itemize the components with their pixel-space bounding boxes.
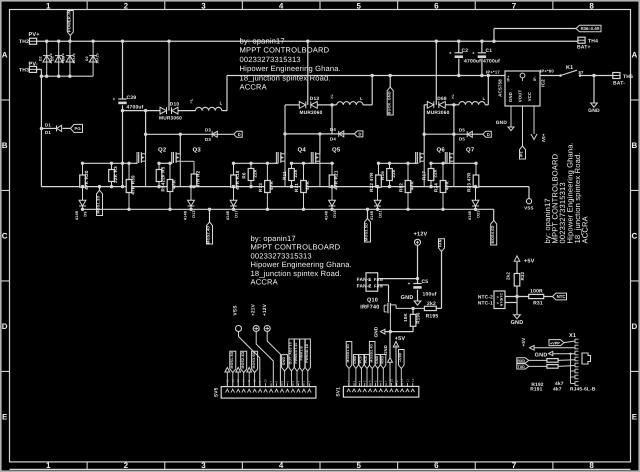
svg-text:+21V: +21V [251,303,257,316]
svg-text:TH6: TH6 [623,74,633,80]
svg-text:VSS: VSS [233,305,239,316]
svg-text:D: D [238,132,241,137]
svg-text:+VPP: +VPP [399,352,403,362]
svg-text:GND: GND [401,295,414,301]
svg-text:D: D [2,322,8,331]
svg-text:Q5: Q5 [332,147,341,154]
svg-text:4148: 4148 [184,211,188,220]
svg-text:4148: 4148 [370,211,374,220]
svg-text:2: 2 [124,2,129,11]
svg-text:PV+: PV+ [29,32,40,38]
svg-text:A: A [632,51,638,60]
svg-text:+: + [113,97,116,102]
svg-text:D2: D2 [51,56,55,61]
svg-text:4700uf: 4700uf [483,59,500,65]
svg-text:FAN: FAN [374,277,383,282]
svg-text:IP2: IP2 [520,151,524,157]
svg-text:D2: D2 [62,56,66,61]
svg-text:GND: GND [511,320,524,326]
svg-text:IP+*80: IP+*80 [540,69,554,74]
svg-text:MOSD1.3D: MOSD1.3D [346,344,350,363]
svg-text:7: 7 [512,461,517,470]
svg-text:D21: D21 [378,210,382,218]
svg-text:E: E [2,412,8,421]
svg-text:R17: R17 [422,171,427,180]
svg-text:NTC: NTC [500,298,504,306]
svg-text:D23: D23 [476,210,480,218]
svg-text:10: 10 [264,379,268,383]
svg-text:MOS3.5D: MOS3.5D [252,351,256,368]
svg-text:2k2: 2k2 [506,272,511,280]
svg-text:NTC-1: NTC-1 [478,301,493,307]
svg-text:7: 7 [512,2,517,11]
svg-text:MOS2.4D: MOS2.4D [207,226,211,244]
svg-text:D17: D17 [234,210,238,218]
svg-text:PWMOUT.11: PWMOUT.11 [294,343,298,364]
svg-text:+5V: +5V [541,134,546,144]
svg-text:IP-: IP- [533,75,537,81]
svg-text:IP+*17: IP+*17 [486,70,500,75]
svg-text:D1: D1 [45,130,51,135]
svg-text:4: 4 [279,2,284,11]
svg-text:47R R2: 47R R2 [196,170,201,187]
svg-text:22k: 22k [293,169,298,178]
svg-text:4148: 4148 [226,211,230,220]
svg-text:L: L [220,101,223,106]
svg-text:R71: R71 [294,183,299,192]
svg-text:R23 47R: R23 47R [467,172,472,192]
svg-text:47R R39: 47R R39 [131,175,136,195]
svg-text:SV5: SV5 [214,387,220,397]
svg-text:D13: D13 [310,96,320,102]
svg-text:GND: GND [588,108,600,114]
svg-text:PC6: PC6 [364,356,368,363]
svg-text:RJ45-6L-B: RJ45-6L-B [570,386,596,392]
svg-text:FAN: FAN [374,283,383,288]
svg-text:GND: GND [375,355,379,363]
svg-text:by: opanin17: by: opanin17 [251,234,296,243]
svg-text:12: 12 [400,379,404,383]
svg-text:4148: 4148 [75,211,79,220]
svg-text:+: + [472,50,475,55]
svg-text:GND: GND [508,92,513,102]
svg-text:5: 5 [356,2,361,11]
svg-text:D3: D3 [205,128,211,133]
svg-text:R191: R191 [530,387,542,393]
svg-text:Q6: Q6 [437,147,446,154]
svg-text:D5: D5 [459,127,465,132]
svg-text:8: 8 [589,2,594,11]
svg-text:D4: D4 [330,127,336,132]
svg-text:ACCRA: ACCRA [240,83,268,92]
svg-text:TXD: TXD [518,365,526,369]
svg-text:00233273315313: 00233273315313 [240,55,301,64]
svg-text:R36=0.4R: R36=0.4R [581,26,600,31]
svg-text:D2: D2 [39,56,43,61]
svg-text:47R R18: 47R R18 [235,170,240,190]
svg-text:R82: R82 [399,183,404,192]
svg-text:10K: 10K [403,313,408,322]
svg-text:MPPT CONTROLBOARD: MPPT CONTROLBOARD [251,243,341,252]
svg-text:C39: C39 [127,95,137,101]
svg-text:00233273315313: 00233273315313 [251,251,312,260]
svg-text:>L: >L [330,94,334,99]
svg-text:2: 2 [124,461,129,470]
svg-text:47R: 47R [445,181,450,191]
svg-text:47R: 47R [305,181,310,191]
svg-text:RXD: RXD [381,356,385,364]
svg-text:GND: GND [496,120,508,126]
svg-text:D9: D9 [83,211,87,216]
svg-text:18_junction spintex Road.: 18_junction spintex Road. [251,269,342,278]
svg-text:PWM1.B: PWM1.B [300,346,304,361]
svg-text:ACS758: ACS758 [498,79,503,97]
svg-text:Q2: Q2 [158,147,167,154]
svg-text:E: E [632,412,638,421]
svg-text:18_junction spintex Road.: 18_junction spintex Road. [240,73,331,82]
svg-text:47K R20: 47K R20 [84,170,89,190]
svg-text:10A10: 10A10 [95,53,99,63]
svg-text:11: 11 [405,379,409,382]
svg-text:47R: 47R [172,180,177,190]
svg-text:BUCK_GND: BUCK_GND [387,91,391,114]
svg-text:4k7: 4k7 [555,381,564,387]
svg-text:IC2: IC2 [541,79,546,87]
svg-text:R16: R16 [380,171,385,180]
svg-text:6: 6 [434,461,439,470]
svg-text:TH3: TH3 [19,68,29,74]
svg-text:PWM3D.1D: PWM3D.1D [305,343,309,362]
svg-text:A: A [2,51,8,60]
svg-text:>: > [368,277,371,282]
svg-text:Q3: Q3 [193,147,202,154]
svg-text:4700uf: 4700uf [464,59,481,65]
svg-text:C5: C5 [422,279,429,285]
svg-text:GND: GND [374,326,379,337]
svg-text:ACCRA: ACCRA [251,278,279,287]
svg-text:+5V: +5V [524,259,535,265]
svg-text:R11: R11 [282,171,287,180]
svg-text:87: 87 [579,70,585,75]
svg-text:IP+: IP+ [507,75,511,81]
svg-text:C: C [632,232,638,241]
svg-text:4: 4 [279,461,284,470]
svg-text:+: + [408,281,411,286]
svg-text:D3: D3 [205,137,211,142]
svg-text:VOUT: VOUT [518,90,523,103]
svg-text:SV1: SV1 [336,387,342,397]
svg-text:R22 47R: R22 47R [369,172,374,192]
svg-text:MOS4.6D: MOS4.6D [491,225,495,243]
svg-text:D: D [487,132,490,137]
svg-text:14: 14 [411,379,415,383]
svg-text:VSS: VSS [524,206,533,211]
svg-text:L: L [360,96,363,101]
svg-text:1: 1 [46,461,51,470]
svg-text:R6: R6 [242,172,247,179]
svg-text:1: 1 [46,2,51,11]
svg-text:5: 5 [356,461,361,470]
svg-text:C1: C1 [486,48,493,54]
svg-text:R54: R54 [161,182,166,191]
svg-text:47R: 47R [269,181,274,191]
svg-text:3: 3 [201,2,206,11]
svg-text:R73: R73 [258,183,263,192]
svg-text:GND: GND [353,355,357,363]
svg-text:D19: D19 [333,210,337,218]
svg-text:Q7: Q7 [466,147,475,154]
svg-text:MUR3060: MUR3060 [300,110,323,116]
svg-text:3: 3 [201,461,206,470]
svg-text:R31: R31 [533,301,543,307]
svg-text:C2: C2 [462,48,469,54]
svg-text:OUT_ADJ.10: OUT_ADJ.10 [289,342,293,364]
svg-text:MOS1.3D: MOS1.3D [97,196,101,214]
svg-text:MUR3060: MUR3060 [427,110,450,116]
svg-text:D12: D12 [192,210,196,218]
svg-text:IRF740: IRF740 [360,305,379,311]
svg-text:B: B [2,141,8,150]
svg-text:100uf: 100uf [423,292,437,298]
svg-text:MOSD2.4D: MOSD2.4D [369,344,373,363]
svg-text:4148: 4148 [468,211,472,220]
svg-text:L: L [483,96,486,101]
svg-text:MOS2.4D: MOS2.4D [241,351,245,368]
svg-text:R32: R32 [520,271,525,280]
svg-text:D2: D2 [85,56,89,61]
svg-text:10A10: 10A10 [72,53,76,63]
svg-text:22K R3: 22K R3 [113,166,118,183]
svg-text:22k: 22k [253,169,258,178]
svg-text:D68: D68 [437,96,447,102]
svg-text:BAT-: BAT- [613,81,625,87]
svg-text:Hipower Engineering Ghana.: Hipower Engineering Ghana. [251,260,352,269]
svg-text:D5: D5 [459,137,465,142]
svg-text:BAT+: BAT+ [577,45,591,51]
svg-text:8: 8 [589,461,594,470]
svg-text:PG-: PG- [75,126,83,131]
svg-text:TH2: TH2 [19,39,29,45]
svg-text:+5V: +5V [521,337,526,347]
svg-text:R195: R195 [426,314,439,320]
svg-text:4148: 4148 [325,211,329,220]
svg-text:2k2: 2k2 [427,301,436,307]
svg-text:Hipower Engineering Ghana.: Hipower Engineering Ghana. [240,64,341,73]
svg-text:C: C [2,232,8,241]
svg-text:6: 6 [434,2,439,11]
svg-text:22k: 22k [391,169,396,178]
svg-text:FAN: FAN [439,239,443,247]
svg-text:B: B [632,141,638,150]
svg-text:ACCRA: ACCRA [580,215,589,243]
svg-text:R24: R24 [434,183,439,192]
svg-text:R196: R196 [416,312,421,324]
svg-text:GND: GND [535,353,548,359]
svg-text:47R R21: 47R R21 [334,170,339,190]
svg-text:>L: >L [451,94,455,99]
svg-text:NTC-2: NTC-2 [478,295,493,301]
svg-text:VCC: VCC [527,92,532,101]
svg-text:+12V: +12V [414,232,428,238]
svg-text:MUR3060: MUR3060 [159,116,182,122]
svg-text:D10: D10 [170,102,180,108]
svg-text:X1: X1 [569,333,576,339]
svg-text:Q10: Q10 [367,298,378,304]
svg-text:Q4: Q4 [298,147,307,154]
svg-text:100R: 100R [530,289,543,295]
svg-text:PC5: PC5 [359,356,363,363]
svg-text:GND: GND [383,345,388,355]
svg-text:D: D [632,322,638,331]
svg-text:+: + [449,50,452,55]
svg-text:>: > [368,283,371,288]
svg-text:MPPT CONTROLBOARD: MPPT CONTROLBOARD [240,46,330,55]
svg-text:D: D [358,132,361,137]
svg-text:4700uf: 4700uf [127,105,144,111]
svg-text:MOS3.5D: MOS3.5D [365,223,369,241]
svg-text:4k7: 4k7 [553,387,562,393]
svg-text:K1: K1 [566,65,573,71]
svg-text:22k: 22k [433,169,438,178]
svg-text:>L: >L [189,98,193,103]
svg-text:+VPP: +VPP [550,341,560,345]
svg-text:47R: 47R [410,181,415,191]
svg-text:D1: D1 [45,123,51,128]
svg-text:D4: D4 [330,136,336,141]
svg-text:22k R5: 22k R5 [161,166,166,182]
svg-text:+12V: +12V [262,303,268,316]
svg-text:NTC: NTC [557,294,566,299]
svg-text:POWER.IN: POWER.IN [67,10,72,32]
svg-text:RXD: RXD [517,359,525,363]
svg-text:10: 10 [389,379,393,383]
svg-text:GND: GND [282,357,286,366]
svg-text:MOS1.3D: MOS1.3D [230,351,234,368]
